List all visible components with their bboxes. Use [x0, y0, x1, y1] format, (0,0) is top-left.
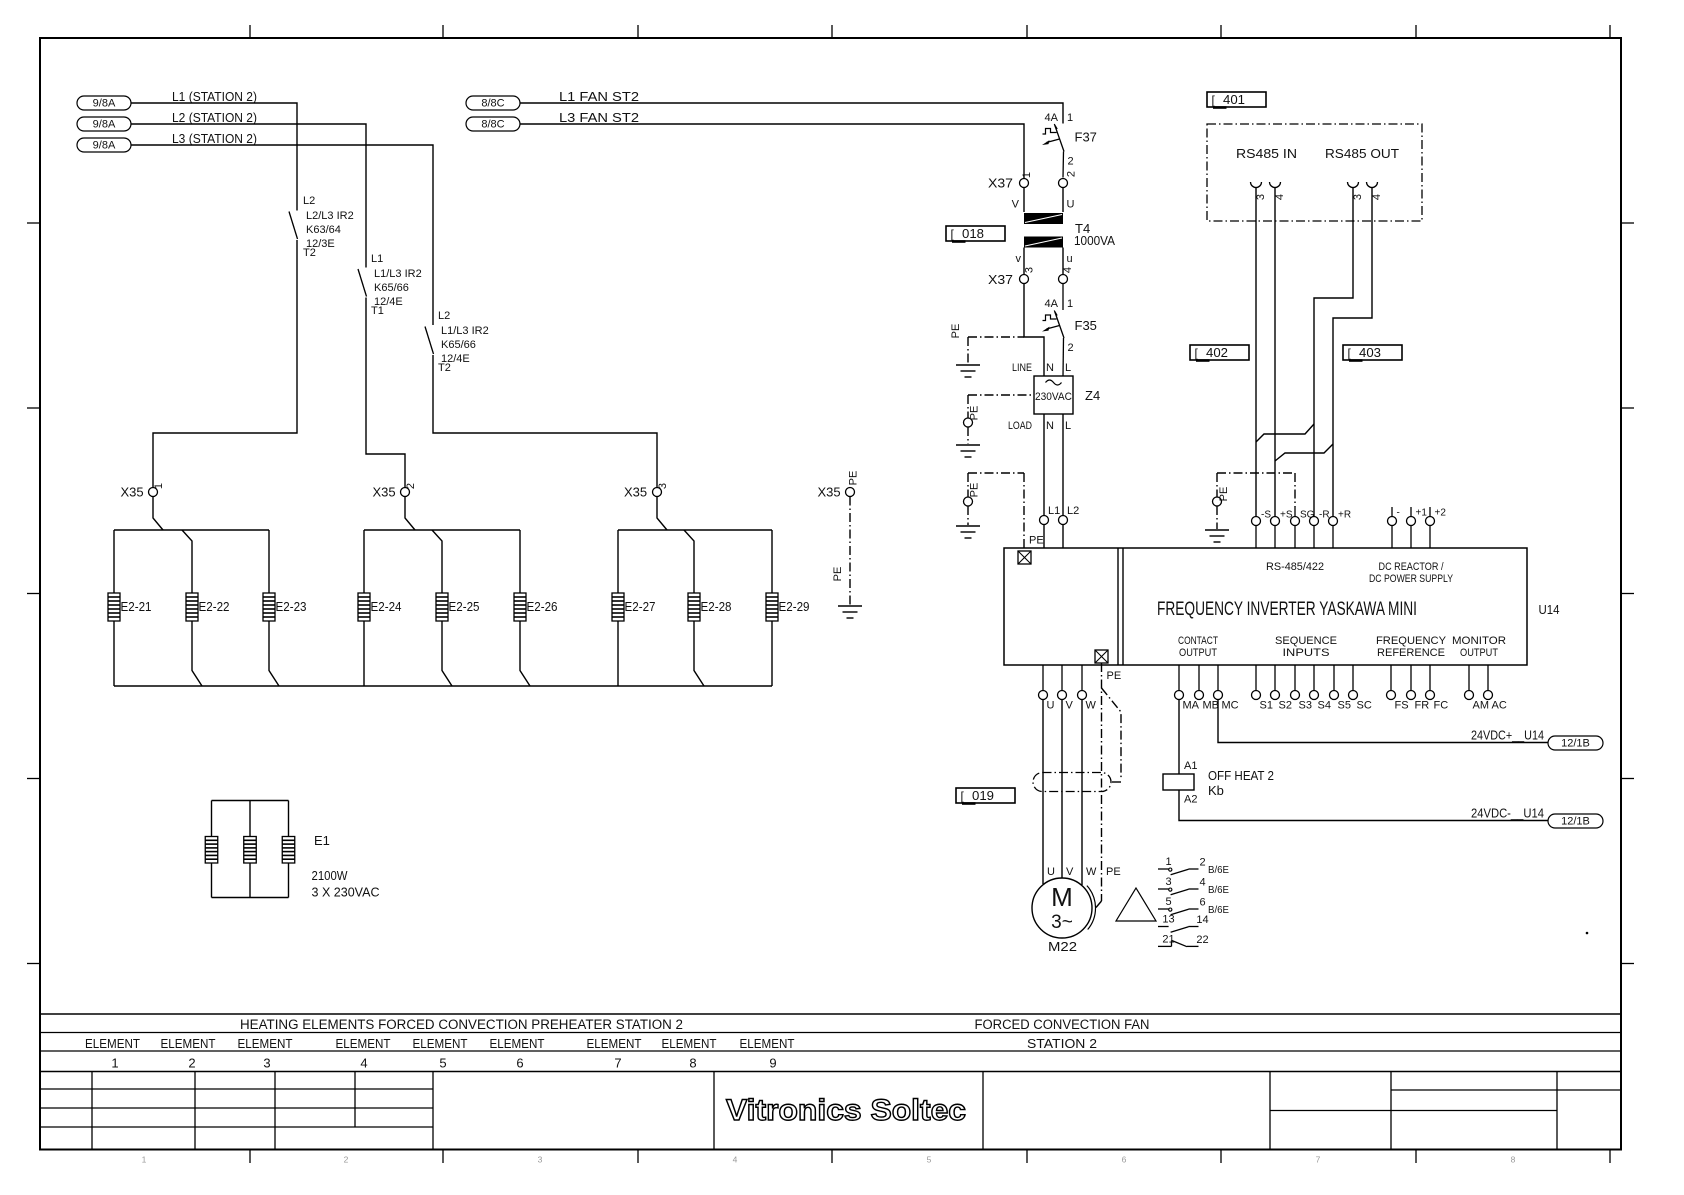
svg-text:3: 3	[657, 483, 669, 489]
svg-text:X35: X35	[121, 485, 144, 500]
terminal U14 U	[1039, 665, 1055, 712]
wire X37 to transformer	[1012, 188, 1075, 213]
net label L1 (STATION 2)	[172, 89, 257, 104]
svg-text:3: 3	[1165, 876, 1171, 888]
svg-text:SEQUENCE: SEQUENCE	[1275, 635, 1337, 647]
svg-text:INPUTS: INPUTS	[1283, 647, 1330, 659]
wire L1 FAN ST2	[520, 103, 1063, 124]
svg-text:2: 2	[405, 483, 417, 489]
stray dot	[1586, 932, 1589, 935]
svg-text:HEATING ELEMENTS FORCED CONVEC: HEATING ELEMENTS FORCED CONVECTION PREHE…	[240, 1017, 683, 1032]
resistor heating element E2-28	[688, 593, 732, 621]
svg-text:LINE: LINE	[1012, 362, 1032, 374]
wire transformer secondary	[1016, 248, 1073, 275]
terminal X35 PE	[818, 471, 860, 500]
bus rail bottom	[114, 685, 772, 687]
RS485 plug dashed enclosure	[1207, 124, 1422, 221]
svg-text:E2-22: E2-22	[199, 599, 230, 614]
svg-text:14: 14	[1196, 914, 1208, 926]
svg-text:-R: -R	[1319, 510, 1330, 521]
PE stub 3 to inverter	[964, 473, 1025, 549]
svg-text:F37: F37	[1075, 130, 1097, 145]
label RS485 OUT	[1325, 146, 1399, 161]
svg-text:B/6E: B/6E	[1208, 864, 1229, 876]
svg-text:B/6E: B/6E	[1208, 884, 1229, 896]
svg-text:402: 402	[1206, 346, 1228, 360]
svg-text:S1: S1	[1260, 700, 1273, 712]
svg-text:1: 1	[1067, 112, 1073, 124]
svg-text:L2 (STATION 2): L2 (STATION 2)	[172, 110, 257, 125]
svg-text:S5: S5	[1338, 700, 1351, 712]
contact K63/64 (L2/L3 IR2)	[289, 195, 354, 259]
svg-text:RS-485/422: RS-485/422	[1266, 561, 1324, 573]
node tag 8/8C L3 FAN	[466, 117, 520, 131]
svg-text:T1: T1	[371, 305, 384, 317]
svg-text:12/1B: 12/1B	[1561, 738, 1590, 750]
breaker F35 4A	[1042, 283, 1097, 376]
svg-text:L: L	[1065, 362, 1071, 374]
svg-text:5: 5	[439, 1056, 446, 1071]
svg-text:1: 1	[153, 483, 165, 489]
svg-text:13: 13	[1162, 914, 1174, 926]
svg-text:403: 403	[1359, 346, 1381, 360]
ground PE2	[956, 445, 980, 457]
wire branch E2-29	[771, 530, 773, 686]
resistor E1 element 1	[205, 837, 218, 864]
wire X35 PE to ground	[832, 497, 850, 606]
svg-text:6: 6	[516, 1056, 523, 1071]
wire V to motor	[1061, 700, 1063, 879]
svg-text:L2: L2	[1067, 505, 1079, 517]
svg-text:ELEMENT: ELEMENT	[740, 1036, 795, 1051]
svg-text:4: 4	[733, 1155, 738, 1165]
svg-text:E2-25: E2-25	[449, 599, 480, 614]
svg-text:AC: AC	[1492, 700, 1507, 712]
svg-text:FC: FC	[1434, 700, 1449, 712]
terminal U14 DC -	[1388, 507, 1400, 548]
svg-text:u: u	[1067, 253, 1073, 265]
PE wire inverter to motor	[1096, 663, 1102, 908]
svg-text:L1/L3 IR2: L1/L3 IR2	[374, 268, 422, 280]
svg-text:1: 1	[1165, 856, 1171, 868]
node tag 12/1B minus	[1548, 814, 1603, 828]
ground PE1	[956, 365, 980, 377]
wire Z4 load to inverter L1	[1043, 414, 1045, 516]
svg-text:W: W	[1086, 866, 1097, 878]
label E1 rating	[312, 868, 380, 900]
svg-text:3: 3	[1024, 267, 1036, 273]
node tag 8/8C L1 FAN	[466, 96, 520, 110]
svg-text:ELEMENT: ELEMENT	[161, 1036, 216, 1051]
terminal U14 S3	[1291, 665, 1312, 712]
svg-text:PE: PE	[950, 324, 962, 339]
svg-text:9/8A: 9/8A	[93, 98, 116, 110]
wire Z4 load to inverter L2	[1062, 414, 1064, 516]
title HEATING ELEMENTS FORCED CONVECTION PREHEATER STATION 2	[240, 1017, 683, 1032]
svg-text:LOAD: LOAD	[1008, 420, 1032, 432]
terminal X35 pin 2	[373, 483, 418, 530]
bus rail group2 top	[364, 529, 520, 531]
svg-text:L1: L1	[1048, 505, 1060, 517]
svg-text:PE: PE	[969, 483, 981, 498]
terminal U14 AM	[1465, 665, 1490, 712]
svg-text:L1: L1	[371, 253, 383, 265]
svg-text:E2-28: E2-28	[701, 599, 732, 614]
wire L3 station2	[131, 145, 657, 488]
svg-text:N: N	[1046, 420, 1054, 432]
wire Kb A2 to 24VDC-	[1179, 790, 1548, 821]
terminal U14 DC +2	[1426, 507, 1447, 548]
wire MA to relay Kb	[1179, 700, 1197, 775]
terminal U14 MC	[1214, 665, 1239, 712]
net label L2 (STATION 2)	[172, 110, 257, 125]
wire X37-3 to Z4 line N	[1024, 283, 1044, 376]
label PE at inverter top	[1029, 535, 1044, 547]
cable shield screen	[1033, 773, 1111, 792]
PE connection box bottom	[1095, 650, 1121, 682]
svg-text:24VDC+__U14: 24VDC+__U14	[1471, 728, 1544, 743]
aux contact 5-6 B/6E	[1158, 896, 1229, 916]
wire SG stub	[1294, 507, 1296, 517]
svg-text:1: 1	[1067, 298, 1073, 310]
net label L1 FAN ST2	[559, 89, 639, 104]
terminal U14 -S	[1252, 510, 1272, 549]
svg-text:3~: 3~	[1051, 912, 1073, 933]
svg-text:S4: S4	[1318, 700, 1331, 712]
svg-text:X35: X35	[373, 485, 396, 500]
filter Z4 230VAC	[1008, 362, 1100, 432]
frequency inverter U14 box	[1004, 548, 1527, 665]
svg-text:1: 1	[1021, 172, 1033, 178]
svg-text:E2-21: E2-21	[121, 599, 152, 614]
svg-text:FORCED CONVECTION FAN: FORCED CONVECTION FAN	[975, 1017, 1150, 1032]
cable ref box _018	[946, 226, 1005, 243]
svg-text:8/8C: 8/8C	[481, 119, 504, 131]
element column numbers	[111, 1056, 776, 1071]
svg-text:3: 3	[1352, 194, 1364, 200]
svg-text:Vitronics Soltec: Vitronics Soltec	[726, 1094, 966, 1127]
svg-text:MB: MB	[1203, 700, 1220, 712]
terminal X37 pin2	[1059, 171, 1078, 188]
svg-text:5: 5	[1165, 896, 1171, 908]
svg-text:L2/L3 IR2: L2/L3 IR2	[306, 210, 354, 222]
terminal U14 S4	[1310, 665, 1331, 712]
svg-text:V: V	[1012, 199, 1020, 211]
terminal U14 FS	[1387, 665, 1409, 712]
svg-text:ELEMENT: ELEMENT	[85, 1036, 140, 1051]
svg-text:4: 4	[1274, 194, 1286, 200]
svg-text:3: 3	[1255, 194, 1267, 200]
svg-text:6: 6	[1122, 1155, 1127, 1165]
svg-text:OFF HEAT 2: OFF HEAT 2	[1208, 768, 1274, 783]
terminal U14 S1	[1252, 665, 1273, 712]
terminal U14 SG	[1291, 510, 1315, 549]
label DC REACTOR / DC POWER SUPPLY	[1369, 561, 1454, 585]
wire RS485 OUT3 to -R	[1314, 188, 1353, 517]
resistor heating element E2-27	[612, 593, 656, 621]
svg-text:M22: M22	[1048, 939, 1077, 954]
aux contact 1-2 B/6E	[1158, 856, 1229, 876]
resistor heating element E2-29	[766, 593, 810, 621]
net label L3 (STATION 2)	[172, 131, 257, 146]
svg-text:W: W	[1086, 700, 1097, 712]
bus rail group3 top	[618, 529, 772, 531]
svg-text:T2: T2	[303, 247, 316, 259]
svg-text:X35: X35	[624, 485, 647, 500]
wire branch E2-25	[432, 530, 452, 686]
svg-text:-: -	[1397, 508, 1400, 519]
connector pin RS485 IN4	[1270, 182, 1287, 200]
svg-text:3: 3	[263, 1056, 270, 1071]
wire branch E2-22	[182, 530, 202, 686]
node tag 9/8A L3	[77, 138, 131, 152]
label MONITOR OUTPUT	[1452, 635, 1506, 659]
label STATION 2	[1027, 1036, 1097, 1051]
aux contact 13-14	[1158, 914, 1209, 933]
svg-text:U: U	[1067, 199, 1075, 211]
svg-text:9/8A: 9/8A	[93, 119, 116, 131]
terminal U14 -R	[1310, 510, 1330, 549]
svg-text:2: 2	[344, 1155, 349, 1165]
svg-text:L3 (STATION 2): L3 (STATION 2)	[172, 131, 257, 146]
svg-text:OUTPUT: OUTPUT	[1460, 647, 1498, 659]
label U14	[1539, 602, 1560, 617]
terminal X37 pin1	[988, 172, 1033, 191]
svg-text:ELEMENT: ELEMENT	[238, 1036, 293, 1051]
svg-text:B/6E: B/6E	[1208, 904, 1229, 916]
svg-text:U14: U14	[1539, 602, 1560, 617]
svg-text:PE: PE	[969, 406, 981, 421]
wire L3 FAN ST2	[520, 124, 1024, 178]
svg-text:E2-27: E2-27	[625, 599, 656, 614]
connector pin RS485 OUT4	[1367, 182, 1384, 200]
cable ref box _402	[1190, 345, 1249, 362]
terminal U14 SC	[1349, 665, 1372, 712]
svg-text:6: 6	[1199, 897, 1205, 909]
terminal U14 DC +1	[1407, 507, 1428, 548]
svg-text:T2: T2	[438, 362, 451, 374]
svg-text:7: 7	[1316, 1155, 1321, 1165]
svg-text:-S: -S	[1261, 510, 1271, 521]
svg-text:V: V	[1066, 866, 1074, 878]
delta winding symbol	[1116, 888, 1156, 921]
svg-text:4: 4	[360, 1056, 367, 1071]
svg-text:+R: +R	[1338, 510, 1351, 521]
svg-text:MONITOR: MONITOR	[1452, 635, 1506, 647]
svg-text:REFERENCE: REFERENCE	[1377, 647, 1445, 659]
resistor heating element E2-26	[514, 593, 558, 621]
breaker F37 4A	[1042, 112, 1097, 178]
svg-text:AM: AM	[1473, 700, 1490, 712]
motor M22 3~	[1032, 878, 1096, 954]
svg-text:V: V	[1066, 700, 1074, 712]
svg-text:ELEMENT: ELEMENT	[336, 1036, 391, 1051]
svg-text:E1: E1	[314, 833, 330, 848]
svg-text:ELEMENT: ELEMENT	[662, 1036, 717, 1051]
svg-text:Z4: Z4	[1085, 388, 1100, 403]
svg-text:PE: PE	[832, 567, 844, 582]
svg-text:MC: MC	[1222, 700, 1239, 712]
svg-text:4: 4	[1371, 194, 1383, 200]
svg-text:L1 (STATION 2): L1 (STATION 2)	[172, 89, 257, 104]
svg-text:+1: +1	[1416, 508, 1428, 519]
terminal U14 +R	[1329, 510, 1352, 549]
label E1	[314, 833, 330, 848]
terminal X37 pin3	[988, 267, 1036, 287]
resistor heating element E2-21	[108, 593, 152, 621]
PE connection box top	[1018, 551, 1031, 564]
terminal U14 +S	[1271, 510, 1293, 549]
svg-text:3 X 230VAC: 3 X 230VAC	[312, 885, 380, 900]
node tag 9/8A L2	[77, 117, 131, 131]
cable ref box _401	[1207, 92, 1266, 109]
wire RS485 IN3 to -S	[1255, 188, 1257, 517]
wire crossover jog upper	[1256, 424, 1314, 442]
wire U to motor	[1042, 700, 1044, 885]
svg-text:1000VA: 1000VA	[1074, 233, 1115, 248]
svg-text:DC REACTOR /: DC REACTOR /	[1379, 561, 1445, 573]
svg-text:8: 8	[1511, 1155, 1516, 1165]
svg-text:12/1B: 12/1B	[1561, 816, 1590, 828]
title FORCED CONVECTION FAN	[975, 1017, 1150, 1032]
svg-text:8/8C: 8/8C	[481, 98, 504, 110]
wire branch E2-28	[684, 530, 704, 686]
svg-text:STATION 2: STATION 2	[1027, 1036, 1097, 1051]
terminal U14 FC	[1426, 665, 1449, 712]
svg-text:7: 7	[614, 1056, 621, 1071]
svg-text:L1 FAN ST2: L1 FAN ST2	[559, 89, 639, 104]
terminal U14 MB	[1195, 665, 1220, 712]
svg-text:MA: MA	[1183, 700, 1200, 712]
svg-text:FS: FS	[1395, 700, 1409, 712]
svg-text:L2: L2	[303, 195, 315, 207]
svg-text:E2-24: E2-24	[371, 599, 402, 614]
label RS485 IN	[1236, 146, 1297, 161]
cable ref box _403	[1343, 345, 1402, 362]
svg-text:K65/66: K65/66	[441, 339, 476, 351]
ground X35 PE	[838, 606, 862, 618]
ground PE RS485	[1205, 530, 1229, 542]
ground PE3	[956, 526, 980, 538]
svg-text:2: 2	[1068, 342, 1074, 354]
svg-text:2: 2	[1199, 857, 1205, 869]
svg-text:E2-23: E2-23	[276, 599, 307, 614]
title block grid	[40, 1014, 1621, 1150]
svg-text:ELEMENT: ELEMENT	[490, 1036, 545, 1051]
svg-text:A1: A1	[1184, 760, 1197, 772]
svg-text:8: 8	[689, 1056, 696, 1071]
svg-text:K65/66: K65/66	[374, 282, 409, 294]
svg-text:+2: +2	[1435, 508, 1447, 519]
svg-text:5: 5	[927, 1155, 932, 1165]
PE stub 1	[950, 324, 1024, 363]
wire branch E2-27	[617, 530, 619, 686]
label CONTACT OUTPUT	[1178, 635, 1218, 659]
svg-text:PE: PE	[848, 471, 860, 486]
svg-text:4A: 4A	[1045, 298, 1059, 310]
svg-text:018: 018	[962, 227, 984, 241]
terminal U14 W	[1078, 665, 1097, 712]
svg-text:DC POWER SUPPLY: DC POWER SUPPLY	[1369, 573, 1454, 585]
node tag 9/8A L1	[77, 96, 131, 110]
relay coil Kb OFF HEAT 2	[1163, 768, 1274, 806]
svg-text:1: 1	[142, 1155, 147, 1165]
svg-text:SC: SC	[1357, 700, 1372, 712]
svg-text:4: 4	[1199, 877, 1205, 889]
svg-text:FR: FR	[1415, 700, 1430, 712]
svg-text:X37: X37	[988, 176, 1013, 191]
terminal inverter L1	[1040, 505, 1061, 548]
svg-text:PE: PE	[1029, 535, 1044, 547]
svg-text:N: N	[1046, 362, 1054, 374]
svg-text:L1/L3 IR2: L1/L3 IR2	[441, 325, 489, 337]
svg-text:9: 9	[769, 1056, 776, 1071]
cable ref box _019	[956, 788, 1015, 805]
connector pin RS485 OUT3	[1348, 182, 1365, 200]
net label L3 FAN ST2	[559, 110, 639, 125]
svg-text:M: M	[1051, 882, 1073, 912]
element column headers	[85, 1036, 795, 1051]
svg-text:L3 FAN ST2: L3 FAN ST2	[559, 110, 639, 125]
svg-text:v: v	[1016, 253, 1022, 265]
terminal U14 AC	[1484, 665, 1507, 712]
svg-text:U: U	[1047, 700, 1055, 712]
label SEQUENCE INPUTS	[1275, 635, 1337, 659]
net label 24VDC+__U14	[1471, 728, 1544, 743]
svg-text:FREQUENCY INVERTER YASKAWA MIN: FREQUENCY INVERTER YASKAWA MINI	[1157, 599, 1417, 620]
svg-text:PE: PE	[1106, 866, 1121, 878]
resistor heating element E2-23	[263, 593, 307, 621]
svg-text:E2-26: E2-26	[527, 599, 558, 614]
svg-text:Kb: Kb	[1208, 783, 1224, 798]
terminal U14 MA	[1175, 665, 1200, 712]
label FREQUENCY INVERTER YASKAWA MINI	[1157, 599, 1417, 620]
PE stub 2	[964, 395, 1035, 444]
wire RS485 OUT4 to +R	[1333, 188, 1372, 517]
label RS-485/422	[1266, 561, 1324, 573]
resistor heating element E2-22	[186, 593, 230, 621]
wire branch E2-23	[269, 530, 279, 686]
resistor E1 element 3	[282, 837, 295, 864]
terminal U14 S5	[1330, 665, 1351, 712]
net label 24VDC-__U14	[1471, 806, 1544, 821]
svg-text:L: L	[1065, 420, 1071, 432]
svg-text:RS485 IN: RS485 IN	[1236, 146, 1297, 161]
PE branch to cable shield	[1102, 688, 1122, 782]
wire RS485 IN4 to +S	[1274, 188, 1276, 517]
svg-text:PE: PE	[1218, 487, 1230, 502]
svg-text:22: 22	[1196, 934, 1208, 946]
svg-text:S3: S3	[1299, 700, 1312, 712]
svg-text:A2: A2	[1184, 794, 1197, 806]
svg-text:4A: 4A	[1045, 112, 1059, 124]
label FREQUENCY REFERENCE	[1376, 635, 1447, 659]
svg-text:401: 401	[1223, 93, 1245, 107]
wire L2 station2	[131, 124, 405, 488]
resistor E1 element 2	[244, 837, 257, 864]
wire L1 station2	[131, 103, 297, 488]
wire W to motor	[1081, 700, 1083, 886]
svg-text:S2: S2	[1279, 700, 1292, 712]
terminal U14 S2	[1271, 665, 1292, 712]
terminal inverter L2	[1059, 505, 1080, 548]
svg-text:K63/64: K63/64	[306, 224, 341, 236]
wire crossover jog lower	[1275, 444, 1333, 461]
labels U V W PE at motor	[1047, 866, 1121, 878]
svg-text:RS485 OUT: RS485 OUT	[1325, 146, 1399, 161]
svg-text:2: 2	[1066, 171, 1078, 177]
svg-text:230VAC: 230VAC	[1035, 391, 1072, 403]
